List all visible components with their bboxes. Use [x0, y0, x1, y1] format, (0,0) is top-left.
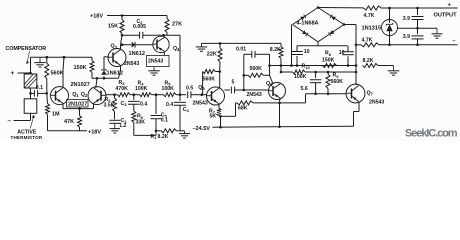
- ground output 8.2K: [393, 66, 395, 71]
- svg-text:15K: 15K: [108, 24, 118, 30]
- bridge diode D3: [302, 30, 308, 36]
- wire Q5 collector: [219, 72, 221, 89]
- wire: [30, 88, 32, 99]
- svg-text:SeekIC.com: SeekIC.com: [405, 127, 458, 139]
- svg-text:5: 5: [232, 79, 235, 85]
- svg-text:0.005: 0.005: [133, 24, 146, 30]
- resistor 560K left: [46, 56, 49, 59]
- svg-text:1M: 1M: [52, 111, 60, 117]
- svg-text:33K: 33K: [136, 119, 146, 125]
- wire lower node / resistor R10 100K: [281, 71, 293, 73]
- svg-text:Q2: Q2: [81, 92, 88, 98]
- svg-text:C4: C4: [183, 107, 190, 113]
- svg-text:5K: 5K: [210, 114, 217, 120]
- resistor 8.2K stage2 load: [280, 43, 282, 46]
- capacitor C3 0.4: [133, 95, 135, 100]
- terminal - input: [30, 113, 32, 120]
- resistor R5 100K: [156, 94, 164, 96]
- wire 68K riser: [305, 94, 307, 103]
- svg-text:+: +: [11, 70, 15, 77]
- svg-text:150K: 150K: [322, 57, 335, 63]
- diode 1N612 horizontal: [122, 44, 131, 46]
- wire Q6 emitter: [279, 99, 281, 103]
- resistor 8.2K output to ground: [363, 64, 379, 68]
- svg-text:10: 10: [304, 49, 310, 55]
- resistor 150K first stage: [91, 57, 93, 60]
- transistor Q5 2N543: [207, 87, 225, 105]
- svg-text:2N1027: 2N1027: [71, 82, 90, 88]
- svg-text:+18V: +18V: [88, 130, 101, 136]
- resistor R1 8.2K: [161, 129, 177, 133]
- resistor R2 3.5K: [106, 94, 115, 96]
- svg-text:R9: R9: [333, 73, 340, 79]
- svg-text:560K: 560K: [51, 71, 64, 77]
- leader arrow to compensator: [27, 51, 29, 63]
- resistor 4.7K top: [364, 6, 382, 10]
- wire collector node Q2: [92, 77, 119, 79]
- svg-text:2N543: 2N543: [193, 101, 208, 107]
- svg-text:3.9: 3.9: [403, 34, 410, 40]
- wire Q7 collector column: [355, 25, 357, 86]
- svg-text:10: 10: [339, 50, 345, 56]
- svg-text:Q7: Q7: [367, 90, 374, 96]
- transistor Q4 2N543: [153, 36, 169, 52]
- wire Q3 emitter: [120, 66, 122, 71]
- ground after R1: [184, 131, 186, 134]
- ground under C1: [114, 123, 116, 128]
- wire Q5 emitter / resistor R7 5K: [218, 104, 220, 109]
- svg-text:Q5: Q5: [198, 85, 205, 91]
- svg-text:COMPENSATOR: COMPENSATOR: [6, 46, 47, 52]
- svg-text:470K: 470K: [116, 86, 129, 92]
- svg-text:8.2K: 8.2K: [363, 58, 374, 64]
- wire Q7 base: [306, 93, 347, 95]
- transistor Q6 2N543: [269, 83, 286, 100]
- svg-text:560K: 560K: [331, 79, 344, 85]
- capacitor 5.6: [315, 72, 317, 78]
- svg-text:2N543: 2N543: [247, 92, 262, 98]
- wire Q4 emitter: [163, 52, 165, 56]
- capacitor C5 0.1: [155, 95, 157, 114]
- svg-text:1N612: 1N612: [129, 51, 145, 57]
- svg-text:560K: 560K: [250, 66, 263, 72]
- bridge diode D1: [300, 15, 306, 21]
- svg-text:2N543: 2N543: [148, 59, 163, 65]
- svg-text:–: –: [8, 118, 12, 125]
- boxed label 2N543: [147, 55, 170, 66]
- svg-text:68K: 68K: [238, 106, 248, 112]
- svg-text:2N543: 2N543: [124, 61, 139, 67]
- wire Q3 collector: [120, 45, 122, 50]
- resistor 150K output: [323, 64, 337, 68]
- svg-text:R10: R10: [302, 64, 311, 70]
- svg-text:R8: R8: [325, 51, 332, 57]
- resistor R4 100K: [134, 94, 140, 96]
- transistor Q7 2N543: [346, 84, 365, 103]
- svg-text:0.4: 0.4: [140, 101, 147, 107]
- resistor 22K: [219, 43, 221, 48]
- svg-text:4.7K: 4.7K: [362, 38, 373, 44]
- wire Q3 base: [103, 57, 105, 64]
- resistor 68K: [236, 102, 238, 104]
- capacitor 10 right: [347, 56, 349, 65]
- resistor R9 560K: [326, 74, 330, 89]
- wire bottom R1 rail: [156, 130, 161, 132]
- svg-text:22K: 22K: [207, 51, 217, 57]
- wire Q1 collector: [62, 70, 64, 88]
- svg-text:100K: 100K: [294, 74, 307, 80]
- wire base line R3 R4 R5: [115, 94, 118, 96]
- diode 1N612 vertical: [103, 76, 105, 78]
- wire top node to Q4: [164, 34, 181, 36]
- wire compensator column: [30, 57, 32, 74]
- svg-text:–24.5V: –24.5V: [193, 126, 211, 132]
- wire R6/C5 bottom: [134, 134, 156, 136]
- svg-text:Q1: Q1: [72, 92, 79, 98]
- resistor 560K feedback Q6: [248, 73, 264, 77]
- ground G1: [39, 58, 41, 63]
- svg-text:+: +: [448, 3, 452, 9]
- transistor Q3 2N543: [108, 49, 126, 67]
- wire bridge right to Q7 column: [344, 24, 356, 26]
- wire bridge bottom: [317, 42, 319, 46]
- resistor 1M: [46, 104, 50, 115]
- svg-text:R3: R3: [119, 80, 126, 86]
- wire top rail output: [318, 7, 364, 9]
- capacitor 10 left: [291, 25, 293, 66]
- wire upper node: [270, 65, 357, 67]
- svg-text:Q4: Q4: [173, 46, 180, 52]
- diode bridge 4-1N68A: [293, 8, 345, 42]
- wire Q4 collector: [163, 35, 166, 37]
- resistor 27K: [166, 16, 168, 19]
- svg-text:R1: R1: [151, 134, 158, 140]
- active thermistor box: [24, 99, 37, 114]
- svg-text:2N543: 2N543: [369, 99, 384, 105]
- resistor R6 33K: [133, 104, 135, 111]
- transistor Q1 2N1027: [51, 87, 69, 105]
- ground output right: [418, 27, 438, 29]
- svg-text:THERMISTOR: THERMISTOR: [11, 135, 43, 140]
- svg-text:4.7K: 4.7K: [364, 13, 375, 19]
- svg-text:0.4: 0.4: [166, 102, 173, 108]
- svg-text:150K: 150K: [74, 65, 87, 71]
- svg-text:+18V: +18V: [90, 13, 103, 19]
- capacitor C1 1.2: [114, 112, 116, 120]
- svg-text:27K: 27K: [172, 21, 182, 27]
- capacitor C4 0.4: [179, 95, 181, 101]
- resistor 4.7K bottom: [356, 44, 361, 46]
- svg-text:2N1027: 2N1027: [68, 102, 87, 108]
- svg-text:0.01: 0.01: [236, 46, 246, 52]
- svg-text:5.6: 5.6: [301, 86, 308, 92]
- resistor R3 470K: [118, 93, 131, 97]
- wire stage2 top rail: [202, 42, 282, 44]
- boxed label 2N1027: [67, 100, 89, 107]
- ground under 2N543 box: [153, 67, 155, 71]
- capacitor 5 coupling: [225, 89, 230, 91]
- svg-text:8.2K: 8.2K: [158, 134, 169, 140]
- wire left rail to 150K: [63, 56, 66, 59]
- wire Q6 collector: [270, 75, 273, 83]
- svg-text:3.5K: 3.5K: [104, 102, 115, 108]
- bridge diode D2: [330, 15, 336, 21]
- resistor 560K feedback Q5: [215, 71, 219, 73]
- svg-text:Q3: Q3: [111, 44, 118, 50]
- svg-text:1N1315: 1N1315: [362, 25, 382, 31]
- transistor Q2 2N1027: [88, 87, 106, 105]
- svg-text:C3: C3: [121, 101, 128, 107]
- svg-text:OUTPUT: OUTPUT: [434, 13, 458, 19]
- svg-text:0.1: 0.1: [36, 85, 43, 91]
- svg-text:0.5: 0.5: [186, 85, 193, 91]
- svg-text:4-1N68A: 4-1N68A: [297, 20, 319, 26]
- wire zener to caps: [397, 27, 417, 29]
- svg-text:0.1: 0.1: [161, 118, 168, 124]
- resistor 15K: [121, 16, 123, 20]
- svg-text:100K: 100K: [135, 86, 148, 92]
- svg-text:560K: 560K: [203, 77, 216, 83]
- svg-text:47K: 47K: [64, 119, 74, 125]
- wire Q7 emitter: [358, 102, 360, 112]
- svg-text:100K: 100K: [162, 86, 175, 92]
- ground stage2: [201, 43, 203, 47]
- resistor 47K: [79, 109, 81, 116]
- wire left rail: [31, 56, 93, 58]
- svg-text:1.2: 1.2: [119, 123, 126, 129]
- bridge diode D4: [329, 30, 335, 36]
- svg-text:3.9: 3.9: [403, 16, 410, 22]
- wire Q4 collector column down: [179, 35, 181, 94]
- wire 68K left: [235, 103, 237, 116]
- wire +18V bottom rail: [48, 130, 88, 132]
- wire Q1/Q2 emitters: [62, 103, 64, 108]
- compensator element (hatched box): [24, 74, 37, 88]
- svg-text:8.2K: 8.2K: [270, 47, 281, 53]
- leader arrow thermistor: [30, 117, 33, 129]
